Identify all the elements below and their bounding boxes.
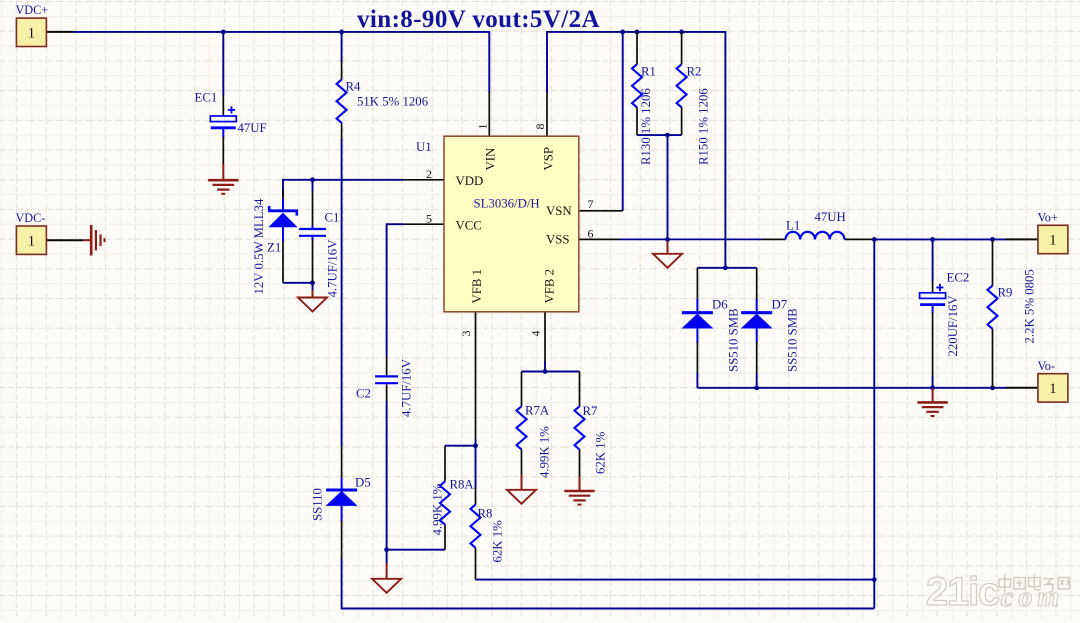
wire D5 top lead	[341, 446, 343, 489]
diode D7	[741, 313, 772, 328]
svg-text:1: 1	[28, 233, 35, 249]
value C1 4.7UF/16V	[326, 239, 340, 298]
junction C1 bottom	[310, 280, 315, 285]
value D6 SS510 SMB	[727, 308, 741, 372]
svg-text:2: 2	[426, 167, 432, 181]
capacitor EC1	[210, 106, 236, 128]
label D5	[355, 476, 371, 490]
title vin vout	[357, 6, 600, 33]
wire R2 lead	[681, 32, 683, 135]
wire EC1 top lead	[222, 32, 224, 116]
svg-text:com: com	[1001, 582, 1064, 613]
resistor R7A	[517, 406, 527, 449]
svg-text:1: 1	[28, 26, 35, 42]
wire L1 right lead	[845, 238, 875, 240]
pin number 5	[426, 212, 432, 226]
junction R9 top	[990, 237, 995, 242]
junction C1 top	[310, 177, 315, 182]
pin number 2	[426, 167, 432, 181]
wire R7A bottom lead	[521, 450, 523, 476]
wire D7 top lead	[756, 268, 758, 311]
pin number 6	[588, 226, 594, 240]
pin name VIN	[484, 148, 498, 171]
wire C2 top lead	[386, 357, 388, 376]
wire R8A top lead	[444, 446, 446, 482]
svg-text:R8A: R8A	[450, 478, 475, 492]
pin name VFB1	[470, 269, 484, 304]
wire Vin rail right segment	[547, 32, 725, 268]
resistor R9	[988, 286, 998, 329]
wire R7 bottom lead	[579, 450, 581, 478]
wire VDD net	[283, 180, 403, 197]
inductor L1	[786, 232, 845, 240]
label R8A	[450, 478, 475, 492]
wire R8 to VSS net	[476, 579, 875, 581]
ground VDC- earth	[83, 225, 105, 256]
pin name VDD	[456, 174, 484, 188]
svg-text:EC1: EC1	[195, 91, 218, 105]
pin number 7	[588, 197, 594, 211]
value R2 R150 1% 1206	[697, 88, 711, 165]
value EC2 220UF/16V	[946, 295, 960, 357]
junction bottom feedback	[872, 577, 877, 582]
svg-text:R7: R7	[583, 404, 599, 418]
wire R8 top lead	[475, 446, 477, 505]
value D5 SS110	[311, 488, 325, 521]
wire Vout top	[874, 238, 1006, 240]
junction EC1 top	[221, 30, 226, 35]
svg-text:VDC+: VDC+	[16, 3, 49, 17]
ground R7A triangle	[507, 475, 536, 504]
svg-text:4: 4	[529, 331, 543, 337]
junction R2 top	[679, 30, 684, 35]
watermark 21ic logo	[926, 570, 1070, 614]
junction D6D7 top	[723, 265, 728, 270]
wire C2 bottom lead	[386, 384, 388, 402]
svg-text:VCC: VCC	[456, 218, 482, 232]
value D7 SS510 SMB	[786, 308, 800, 372]
wire R9 bottom lead	[992, 329, 994, 388]
svg-text:21ic.: 21ic.	[926, 570, 1007, 614]
junction VSS ground	[665, 237, 670, 242]
svg-text:12V 0.5W MLL34: 12V 0.5W MLL34	[252, 198, 266, 294]
wire pin 5 VCC stub	[403, 223, 444, 225]
svg-text:C2: C2	[356, 387, 371, 401]
ground R7 earth	[564, 477, 594, 505]
value R8 62K 1%	[491, 520, 505, 563]
wire Vo+ port lead	[1006, 238, 1038, 240]
wire pin 1 stub	[488, 92, 490, 136]
capacitor EC2	[920, 284, 946, 305]
resistor R2	[677, 64, 687, 107]
wire pin 7 VSN	[579, 32, 623, 211]
label R7A	[525, 404, 550, 418]
pin number 1	[476, 124, 490, 130]
resistor R4	[337, 80, 347, 123]
junction VFB1	[473, 443, 478, 448]
svg-text:VSP: VSP	[542, 147, 556, 170]
svg-text:51K 5% 1206: 51K 5% 1206	[357, 95, 429, 109]
value C2 4.7UF/16V	[400, 358, 414, 417]
resistor R8A	[440, 481, 450, 524]
svg-text:SS510 SMB: SS510 SMB	[786, 308, 800, 372]
wire Z1 bottom lead	[282, 241, 284, 283]
label SL3036/D/H	[474, 197, 540, 211]
svg-text:6: 6	[588, 226, 594, 240]
wire VFB2 cross	[522, 371, 580, 373]
label VDC+	[16, 3, 49, 17]
svg-text:R150 1% 1206: R150 1% 1206	[697, 88, 711, 165]
wire R4 to D5	[341, 123, 343, 446]
pin name VFB2	[543, 269, 557, 304]
ground Z1 C1 triangle	[298, 283, 327, 312]
svg-text:1: 1	[476, 124, 490, 130]
value R8A 4.99K 1%	[431, 483, 445, 535]
value EC1 47UF	[238, 121, 267, 135]
label R2	[687, 65, 702, 79]
svg-text:1: 1	[1049, 381, 1056, 397]
svg-text:D5: D5	[355, 476, 371, 490]
svg-text:VFB 1: VFB 1	[470, 269, 484, 304]
svg-text:R4: R4	[346, 80, 362, 94]
svg-text:47UH: 47UH	[815, 210, 846, 224]
label R8	[478, 507, 493, 521]
svg-text:VDC-: VDC-	[16, 211, 46, 225]
label Z1	[267, 241, 281, 255]
value Z1 12V 0.5W MLL34	[252, 198, 266, 294]
ground C2 triangle	[372, 550, 401, 593]
svg-text:R1: R1	[641, 65, 656, 79]
svg-text:VIN: VIN	[484, 148, 498, 171]
capacitor C1	[299, 180, 326, 283]
svg-text:L1: L1	[786, 219, 800, 233]
wire VFB1 to R8A	[445, 445, 476, 447]
wire Z1-C1 bottom	[283, 282, 313, 284]
label Vo+	[1038, 211, 1058, 225]
svg-text:Vo-: Vo-	[1038, 359, 1055, 373]
wire pin 3 VFB1	[475, 312, 477, 446]
wire VDC+ port lead	[47, 31, 75, 33]
svg-text:VDD: VDD	[456, 174, 484, 188]
svg-text:220UF/16V: 220UF/16V	[946, 295, 960, 357]
svg-text:EC2: EC2	[947, 271, 970, 285]
wire D6 top lead	[696, 268, 698, 311]
svg-text:vin:8-90V vout:5V/2A: vin:8-90V vout:5V/2A	[357, 6, 600, 33]
wire VDC- port lead	[47, 239, 84, 241]
svg-text:1: 1	[1049, 233, 1056, 249]
wire R7A top lead	[521, 372, 523, 407]
svg-text:2.2K 5% 0805: 2.2K 5% 0805	[1023, 269, 1037, 343]
wire EC1 bottom lead	[222, 129, 224, 165]
junction R1R2	[665, 133, 670, 138]
label R4	[346, 80, 362, 94]
wire Vin top rail	[73, 32, 489, 93]
pin name VSP	[542, 147, 556, 170]
resistor R8	[471, 505, 481, 548]
diode D6	[682, 313, 713, 328]
junction R9 bottom	[990, 385, 995, 390]
junction D7 bottom	[754, 385, 759, 390]
wire R8A bottom lead	[444, 525, 446, 550]
svg-text:4.7UF/16V: 4.7UF/16V	[400, 358, 414, 417]
junction EC2 top	[930, 237, 935, 242]
wire D7 bottom lead	[756, 329, 758, 388]
svg-text:U1: U1	[416, 140, 432, 154]
node Vo- port	[1038, 374, 1068, 402]
wire D5 bottom lead	[342, 505, 875, 609]
wire R1R2 to VSS	[667, 135, 669, 239]
svg-text:62K 1%: 62K 1%	[594, 431, 608, 474]
junction R4 top	[339, 30, 344, 35]
node Vo+ port	[1038, 225, 1068, 253]
label VDC-	[16, 211, 46, 225]
svg-text:Vo+: Vo+	[1038, 211, 1058, 225]
wire C2 to junction	[386, 401, 388, 550]
svg-text:R130 1% 1206: R130 1% 1206	[639, 88, 653, 165]
wire R8 bottom lead	[475, 548, 477, 580]
svg-text:R9: R9	[998, 286, 1013, 300]
svg-text:R7A: R7A	[525, 404, 550, 418]
value R7A 4.99K 1%	[538, 426, 552, 478]
svg-text:47UF: 47UF	[238, 121, 267, 135]
label C2	[356, 387, 371, 401]
junction L1 out	[872, 237, 877, 242]
pin name VSS	[546, 233, 569, 247]
junction R1 top	[635, 30, 640, 35]
label R1	[641, 65, 656, 79]
label C1	[325, 211, 340, 225]
label U1	[416, 140, 432, 154]
op-amp U1 body	[444, 136, 579, 312]
svg-text:VSS: VSS	[546, 233, 569, 247]
wire junction to R8A	[387, 549, 445, 551]
value R4 51K 5% 1206	[357, 95, 429, 109]
junction VSN rail	[620, 30, 625, 35]
svg-text:SL3036/D/H: SL3036/D/H	[474, 197, 540, 211]
wire R7 top lead	[579, 372, 581, 407]
svg-text:8: 8	[533, 124, 547, 130]
svg-text:7: 7	[588, 197, 594, 211]
value R9 2.2K 5% 0805	[1023, 269, 1037, 343]
wire EC2 bottom lead	[932, 305, 934, 388]
wire L1 left lead	[762, 238, 786, 240]
svg-text:VSN: VSN	[546, 204, 572, 218]
svg-text:62K 1%: 62K 1%	[491, 520, 505, 563]
svg-text:4.99K 1%: 4.99K 1%	[431, 483, 445, 535]
label R7	[583, 404, 599, 418]
zener Z1	[268, 190, 298, 242]
label D7	[772, 298, 788, 312]
junction EC2 bottom	[930, 385, 935, 390]
pin name VSN	[546, 204, 572, 218]
wire VCC net	[387, 224, 403, 356]
wire pin 8 stub	[546, 92, 548, 136]
svg-text:R8: R8	[478, 507, 493, 521]
diode D5	[326, 490, 357, 505]
wire VSS net	[619, 238, 762, 240]
wire EC2 top lead	[932, 239, 934, 292]
ground EC2 earth	[917, 388, 947, 416]
wire pin 2 VDD stub	[403, 179, 444, 181]
svg-text:VFB 2: VFB 2	[543, 269, 557, 304]
svg-text:5: 5	[426, 212, 432, 226]
label EC2	[947, 271, 970, 285]
wire Vo- port lead	[1006, 387, 1038, 389]
label L1	[786, 219, 800, 233]
svg-text:C1: C1	[325, 211, 340, 225]
svg-text:3: 3	[459, 331, 473, 337]
junction VFB2	[543, 369, 548, 374]
label Vo-	[1038, 359, 1055, 373]
wire pin 6 VSS stub	[579, 238, 620, 240]
wire VSS drop to bottom	[873, 239, 875, 608]
wire D6 bottom lead	[696, 329, 698, 388]
resistor R1	[632, 64, 642, 107]
capacitor C2	[375, 376, 398, 383]
label D6	[712, 298, 728, 312]
wire D6 D7 top	[697, 267, 756, 269]
wire R1 lead	[636, 32, 638, 135]
wire R1 R2 bottom	[637, 134, 682, 136]
wire pin 4 VFB2	[544, 312, 546, 372]
svg-text:4.7UF/16V: 4.7UF/16V	[326, 239, 340, 298]
svg-text:SS510 SMB: SS510 SMB	[727, 308, 741, 372]
pin number 4	[529, 331, 543, 337]
svg-text:R2: R2	[687, 65, 702, 79]
junction C2 bottom	[384, 547, 389, 552]
resistor R7	[575, 406, 585, 449]
value R1 R130 1% 1206	[639, 88, 653, 165]
svg-text:4.99K 1%: 4.99K 1%	[538, 426, 552, 478]
pin name VCC	[456, 218, 482, 232]
value L1 47UH	[815, 210, 846, 224]
ground EC1 earth	[208, 164, 238, 194]
wire R9 top lead	[992, 239, 994, 285]
value R7 62K 1%	[594, 431, 608, 474]
wire ground net bottom	[697, 387, 1006, 389]
wire R4 top lead	[341, 32, 343, 80]
node VDC- port	[16, 226, 46, 254]
svg-text:Z1: Z1	[267, 241, 281, 255]
pin number 8	[533, 124, 547, 130]
ground VSS triangle	[653, 239, 682, 267]
label R9	[998, 286, 1013, 300]
node VDC+ port	[16, 18, 46, 46]
label EC1	[195, 91, 218, 105]
pin number 3	[459, 331, 473, 337]
svg-text:SS110: SS110	[311, 488, 325, 521]
